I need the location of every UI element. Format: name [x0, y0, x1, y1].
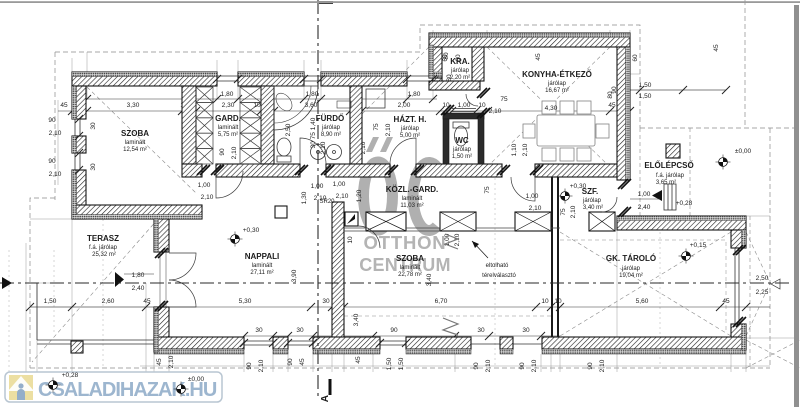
- svg-text:1,30: 1,30: [301, 191, 308, 204]
- svg-text:5,30: 5,30: [239, 298, 252, 305]
- compass symbols: [228, 232, 243, 247]
- right 1,50 dims: [630, 89, 726, 91]
- watermark accent marks: [366, 137, 379, 152]
- scan strip right: [794, 5, 799, 407]
- svg-text:2,20 m²: 2,20 m²: [450, 75, 470, 81]
- terrace dashed outline: [30, 198, 55, 368]
- svg-text:2,25: 2,25: [756, 289, 769, 296]
- svg-text:30: 30: [90, 122, 97, 130]
- svg-text:30: 30: [522, 327, 530, 334]
- wall: bottom T seg: [313, 337, 380, 349]
- door arc: kitchen hall: [466, 94, 478, 106]
- svg-text:2,10: 2,10: [570, 205, 577, 218]
- svg-text:2,10: 2,10: [522, 143, 529, 156]
- svg-text:1,80: 1,80: [221, 91, 234, 98]
- svg-text:járólap: járólap: [621, 266, 641, 272]
- wall: kra bottom: [429, 81, 480, 90]
- svg-text:2,10: 2,10: [49, 171, 62, 178]
- svg-text:SR20: SR20: [319, 199, 335, 205]
- extension lines top: [72, 30, 630, 99]
- terasz corner post: [71, 341, 83, 353]
- svg-text:5,75 m²: 5,75 m²: [218, 132, 238, 138]
- svg-text:30: 30: [255, 327, 263, 334]
- svg-text:1,50: 1,50: [386, 357, 393, 370]
- svg-text:2,40: 2,40: [638, 204, 651, 211]
- vertical section line A: [317, 0, 319, 397]
- svg-text:90: 90: [390, 327, 398, 334]
- svg-text:90: 90: [219, 148, 226, 156]
- svg-text:1,80: 1,80: [132, 272, 145, 279]
- centerline left arrow: [2, 277, 12, 289]
- svg-text:1,50: 1,50: [639, 93, 652, 100]
- svg-text:2,10: 2,10: [529, 205, 542, 212]
- svg-text:80: 80: [443, 52, 450, 60]
- wc toilet: [455, 126, 468, 146]
- svg-text:90: 90: [587, 362, 594, 370]
- wall: nappali-szoba partition SR20: [332, 202, 344, 343]
- wall: kitchen bottom segment: [535, 164, 630, 177]
- svg-text:járólap: járólap: [321, 125, 341, 131]
- section marker A top: [319, 1, 333, 4]
- svg-text:45: 45: [713, 44, 720, 52]
- bottom main dim line: [30, 306, 770, 308]
- svg-text:járólap: járólap: [400, 126, 420, 132]
- wall: bottom pier2: [500, 337, 513, 349]
- svg-text:2,30: 2,30: [222, 102, 235, 109]
- svg-text:90: 90: [287, 358, 294, 366]
- svg-text:+0,28: +0,28: [62, 372, 79, 379]
- svg-text:11,03 m²: 11,03 m²: [400, 203, 423, 209]
- svg-text:19,04 m²: 19,04 m²: [619, 273, 643, 279]
- svg-text:3,40: 3,40: [426, 273, 433, 286]
- fireplace door arc: [358, 226, 380, 248]
- LOGO: [5, 372, 222, 402]
- vertical construction lines light: [9, 178, 660, 375]
- svg-text:3,40 m²: 3,40 m²: [583, 205, 603, 211]
- roof overhang dashed outline left block: [55, 25, 640, 128]
- wall: garage right upper: [731, 230, 746, 248]
- gard wardrobe right column: [240, 87, 261, 164]
- svg-text:GK. TÁROLÓ: GK. TÁROLÓ: [606, 254, 656, 263]
- svg-text:3,65 m²: 3,65 m²: [656, 180, 676, 186]
- svg-text:5,00 m²: 5,00 m²: [400, 133, 420, 139]
- fireplace box SR20: [345, 212, 358, 226]
- gard wardrobe left column: [196, 87, 213, 164]
- svg-text:±0,00: ±0,00: [735, 148, 752, 155]
- svg-text:f.á. járólap: f.á. járólap: [656, 173, 685, 179]
- svg-text:GARD.: GARD.: [215, 114, 241, 123]
- svg-text:27,11 m²: 27,11 m²: [250, 270, 273, 276]
- wall: top exterior segment 4: [433, 72, 442, 86]
- svg-text:2,50: 2,50: [756, 275, 769, 282]
- svg-text:laminált: laminált: [252, 263, 273, 269]
- logo badge: [5, 372, 222, 402]
- kitchen dining table: [523, 101, 609, 161]
- hazt washing machine: [366, 89, 385, 108]
- svg-text:45: 45: [143, 298, 151, 305]
- svg-text:2,10: 2,10: [168, 355, 175, 368]
- svg-text:FÜRDŐ: FÜRDŐ: [316, 114, 344, 123]
- horizontal centerline: [0, 282, 790, 284]
- svg-text:2,10: 2,10: [336, 193, 349, 200]
- roof hip diagonals kitchen: [487, 47, 610, 167]
- door arc: hazt: [390, 138, 416, 164]
- svg-text:8,90 m²: 8,90 m²: [321, 132, 341, 138]
- svg-text:f.á. járólap: f.á. járólap: [89, 245, 118, 251]
- svg-text:±0,00: ±0,00: [188, 376, 205, 383]
- roof overhang dashed left edge: [54, 52, 56, 200]
- svg-text:3,90: 3,90: [291, 269, 298, 282]
- svg-text:ELŐLÉPCSŐ: ELŐLÉPCSŐ: [644, 161, 693, 170]
- door arc: furdo: [300, 138, 326, 164]
- svg-text:1,50: 1,50: [398, 357, 405, 370]
- pillar row X-box 1: [366, 212, 406, 231]
- svg-text:2,10: 2,10: [531, 359, 538, 372]
- WATERMARK: [359, 137, 450, 275]
- svg-text:30: 30: [322, 298, 330, 305]
- wall: bottom seg szoba: [406, 337, 471, 349]
- break zigzag 2: [443, 318, 458, 335]
- roof hip diagonal top-left: [87, 87, 196, 193]
- wall: garage top: [617, 216, 746, 230]
- roof overhang dashed right edge: [769, 128, 771, 368]
- svg-text:2,10: 2,10: [489, 108, 502, 115]
- wall: szoba bottom / terasz top: [72, 205, 202, 219]
- svg-text:1,10: 1,10: [511, 143, 518, 156]
- dashed inner rect garage: [560, 240, 726, 330]
- wall: top exterior segment 3: [321, 72, 407, 86]
- svg-text:2,00: 2,00: [398, 102, 411, 109]
- svg-text:KÖZL.-GARD.: KÖZL.-GARD.: [386, 185, 438, 194]
- elolepcso post: [666, 144, 680, 158]
- svg-text:45: 45: [355, 356, 362, 364]
- svg-text:2,50: 2,50: [285, 123, 292, 136]
- svg-text:2,40: 2,40: [132, 285, 145, 292]
- section marker A bottom: [329, 379, 332, 395]
- svg-text:75: 75: [484, 186, 491, 194]
- svg-text:2,10: 2,10: [385, 123, 392, 136]
- dashed verticals right of garage: [640, 128, 750, 368]
- roof overhang dashed bottom edge: [30, 367, 770, 369]
- svg-text:2,10: 2,10: [49, 130, 62, 137]
- svg-text:1,00: 1,00: [198, 182, 211, 189]
- svg-text:1,50: 1,50: [44, 298, 57, 305]
- svg-text:10: 10: [347, 236, 354, 244]
- wall: kitchen block connector vertical: [429, 45, 442, 78]
- furdo radiator: [337, 101, 351, 108]
- svg-text:2,60: 2,60: [102, 298, 115, 305]
- roof hip diagonals garage: [560, 232, 731, 336]
- wall: kitchen top exterior: [429, 33, 630, 47]
- sliding partition track: [344, 228, 560, 231]
- svg-text:12,54 m²: 12,54 m²: [123, 147, 147, 153]
- svg-text:HÁZT. H.: HÁZT. H.: [394, 115, 427, 124]
- elolepcso steps: [664, 184, 676, 210]
- svg-text:90: 90: [48, 117, 56, 124]
- wall: bottom pier1: [273, 337, 288, 349]
- svg-text:45: 45: [156, 358, 163, 366]
- bottom secondary dim line: [244, 335, 560, 337]
- roof hip diagonal terrace: [32, 219, 158, 362]
- wall: wc top: [443, 113, 484, 119]
- wall: kitchen right exterior: [617, 47, 630, 180]
- wall: left exterior lower: [72, 170, 86, 219]
- wall: wc right partition: [478, 113, 484, 164]
- svg-text:járólap: járólap: [582, 198, 602, 204]
- wall: left exterior upper: [72, 86, 86, 119]
- watermark monogram C: [413, 163, 437, 231]
- windows: bottom wall thin lines: [244, 341, 542, 345]
- svg-text:3,40: 3,40: [353, 313, 360, 326]
- svg-text:laminált: laminált: [218, 125, 239, 131]
- svg-text:1,00: 1,00: [526, 193, 539, 200]
- svg-text:1,50 m²: 1,50 m²: [452, 154, 472, 160]
- svg-text:10: 10: [541, 298, 549, 305]
- wall: bottom garage: [542, 337, 746, 349]
- door arc: szf back entrance: [602, 197, 617, 212]
- wall: kra right: [472, 45, 484, 81]
- wall: szoba-garage double partition: [552, 177, 558, 337]
- elolepcso arrow: [652, 190, 662, 201]
- furdo sinks: [311, 145, 326, 160]
- svg-text:45: 45: [60, 102, 68, 109]
- svg-text:1,20: 1,20: [356, 189, 363, 202]
- terasz door arrow: [115, 272, 124, 287]
- svg-text:1,00: 1,00: [311, 183, 324, 190]
- wall: gard-furdo partition: [261, 86, 274, 164]
- svg-text:75: 75: [373, 123, 380, 131]
- wall: corridor top segment 2: [216, 164, 300, 177]
- roof diagonals right of garage: [746, 232, 800, 368]
- break zigzag 1: [445, 234, 458, 249]
- svg-text:KONYHA-ÉTKEZŐ: KONYHA-ÉTKEZŐ: [522, 70, 592, 79]
- pillar row X-box 2: [440, 212, 476, 231]
- eltolhato arrow: [472, 241, 488, 258]
- sill strips bottom walls: [154, 349, 746, 354]
- WALLS: [37, 33, 746, 354]
- logo house icon: [9, 375, 33, 400]
- wall: garage right lower: [731, 324, 746, 350]
- svg-text:30: 30: [296, 327, 304, 334]
- svg-text:KRA.: KRA.: [450, 57, 470, 66]
- pillar row X-box 4: [589, 212, 615, 231]
- door arc: terasz upper: [169, 253, 196, 280]
- svg-text:A: A: [320, 395, 331, 402]
- svg-text:75: 75: [500, 96, 508, 103]
- svg-text:90: 90: [48, 158, 56, 165]
- dashed vertical x745 top: [744, 0, 746, 128]
- svg-text:2,10: 2,10: [201, 194, 214, 201]
- svg-text:45: 45: [608, 102, 616, 109]
- wall: hazt-wc partition: [443, 113, 449, 164]
- svg-text:45: 45: [722, 298, 730, 305]
- dashed line through szoba: [344, 315, 551, 317]
- extension lines right: [630, 74, 795, 338]
- svg-text:2,10: 2,10: [258, 359, 265, 372]
- svg-text:TERASZ: TERASZ: [87, 234, 119, 243]
- wall: top exterior segment 1: [72, 72, 217, 86]
- svg-text:laminált: laminált: [402, 196, 423, 202]
- wall opening slash marks: [75, 75, 746, 347]
- svg-text:2,10: 2,10: [485, 359, 492, 372]
- window: top wall thin lines: [217, 76, 433, 81]
- wall: bottom exterior seg1 nappali: [154, 337, 244, 349]
- svg-text:2,10: 2,10: [599, 359, 606, 372]
- svg-text:22,78 m²: 22,78 m²: [398, 272, 422, 278]
- svg-text:45: 45: [535, 53, 542, 61]
- wall: corridor top segment gard stub: [182, 164, 202, 177]
- svg-text:térelválasztó: térelválasztó: [482, 273, 516, 279]
- svg-text:laminált: laminált: [125, 140, 146, 146]
- overlay marks on logo: [46, 372, 205, 397]
- svg-text:+0,30: +0,30: [243, 227, 260, 234]
- svg-text:90: 90: [473, 362, 480, 370]
- svg-text:6,70: 6,70: [435, 298, 448, 305]
- door arc: gard: [216, 171, 243, 198]
- watermark monogram O-double-acute: [364, 162, 393, 230]
- scan line top: [0, 1, 800, 3]
- svg-text:járólap: járólap: [452, 147, 472, 153]
- svg-text:1,00: 1,00: [458, 102, 471, 109]
- svg-text:4,30: 4,30: [545, 105, 558, 112]
- svg-text:16,67 m²: 16,67 m²: [545, 88, 569, 94]
- svg-text:+0,28: +0,28: [676, 200, 693, 207]
- svg-text:laminált: laminált: [400, 265, 421, 271]
- wall: terasz door lower: [154, 307, 169, 352]
- svg-text:NAPPALI: NAPPALI: [245, 252, 280, 261]
- door arc: kitchen-corridor: [511, 177, 535, 201]
- svg-text:1,00: 1,00: [638, 191, 651, 198]
- furdo toilet: [277, 138, 291, 156]
- svg-text:SZOBA: SZOBA: [121, 129, 149, 138]
- garage door lines: [735, 248, 739, 324]
- svg-text:90: 90: [519, 362, 526, 370]
- door arc: terasz lower: [169, 280, 196, 307]
- svg-text:25,32 m²: 25,32 m²: [92, 252, 116, 258]
- svg-text:járólap: járólap: [547, 81, 567, 87]
- terasz slab edge: [37, 283, 154, 344]
- top room dim line: [58, 110, 630, 112]
- wall: corridor top segment 3: [326, 164, 390, 177]
- wall: top exterior segment 2: [238, 72, 304, 86]
- svg-text:3,30: 3,30: [127, 102, 140, 109]
- svg-text:eltolható: eltolható: [486, 263, 509, 269]
- window: left wall upper: [75, 119, 80, 170]
- svg-text:SZF.: SZF.: [582, 187, 598, 196]
- pillar row X-box 3: [515, 212, 551, 231]
- wall: szoba-gard partition: [182, 86, 196, 164]
- wall: corridor top segment 4: [416, 164, 502, 177]
- svg-text:járólap: járólap: [450, 68, 470, 74]
- svg-text:30: 30: [90, 163, 97, 171]
- pillar nappali-corridor: [275, 206, 287, 218]
- door leaf terasz: [160, 252, 166, 307]
- insulation dotted strips on exterior walls: [72, 33, 746, 352]
- svg-text:60: 60: [632, 54, 639, 62]
- svg-text:1,80: 1,80: [408, 91, 421, 98]
- svg-text:1,50: 1,50: [639, 82, 652, 89]
- svg-text:+0,15: +0,15: [690, 242, 707, 249]
- wall: left exterior pier: [72, 136, 86, 153]
- extension lines left: [30, 100, 160, 307]
- roof hip diagonal hazt: [362, 47, 429, 114]
- dashed line top right corner: [640, 127, 795, 129]
- svg-text:90: 90: [246, 362, 253, 370]
- DIMS: [26, 44, 770, 372]
- svg-text:30: 30: [477, 327, 485, 334]
- svg-text:WC: WC: [455, 136, 469, 145]
- wall: furdo-hazt partition: [350, 86, 362, 164]
- svg-text:75: 75: [560, 208, 567, 216]
- FIXTURES: [160, 86, 617, 335]
- top window dim line: [72, 98, 437, 100]
- svg-text:5,60: 5,60: [636, 298, 649, 305]
- svg-text:SZOBA: SZOBA: [396, 254, 424, 263]
- svg-text:45: 45: [299, 358, 306, 366]
- svg-text:1,00: 1,00: [333, 181, 346, 188]
- wall: terasz door upper: [154, 219, 169, 252]
- corner bathtub: [274, 86, 318, 130]
- svg-text:2,10: 2,10: [231, 146, 238, 159]
- svg-text:10: 10: [478, 102, 486, 109]
